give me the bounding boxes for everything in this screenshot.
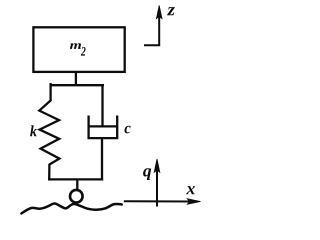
z axis: arrowhead (156, 6, 162, 19)
label c (125, 126, 131, 134)
z axis: shaft (158, 14, 160, 45)
label m2 (70, 43, 86, 55)
damper C: cylinder cup (89, 117, 118, 139)
ground (wavy road surface) (22, 204, 122, 214)
label k (30, 125, 37, 136)
wire: wheel stem (76, 179, 78, 190)
wheel (contact roller) (70, 190, 83, 203)
x axis: arrowhead (187, 199, 200, 205)
label q (143, 168, 151, 180)
wire: bottom connector bar (48, 178, 103, 180)
damper C: bottom rod (101, 138, 103, 179)
q axis: arrowhead (154, 159, 160, 172)
label x (186, 186, 195, 194)
wire: top connector bar (50, 84, 105, 86)
z axis: foot (144, 44, 160, 46)
x axis: shaft (124, 200, 193, 202)
wire: stem from mass bottom to connector bar (75, 72, 77, 85)
mass m2 (rectangle body) (33, 27, 124, 72)
q axis: shaft (156, 168, 158, 207)
damper C: top rod (101, 84, 103, 126)
spring k (39, 84, 59, 179)
label z (167, 7, 175, 15)
damper C: piston plate (88, 125, 118, 127)
